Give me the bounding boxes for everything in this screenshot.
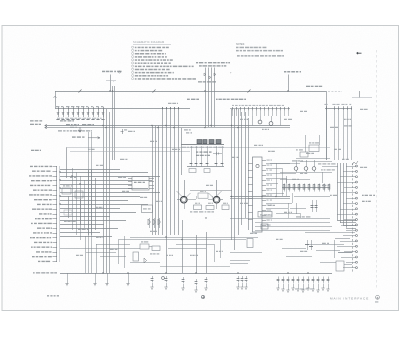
ref label row xyxy=(57,118,102,119)
power-on label xyxy=(284,71,301,73)
wire lamp drop xyxy=(106,75,116,92)
data bus pair xyxy=(45,124,290,129)
resistor network RA1 xyxy=(62,170,96,235)
trig lamp label xyxy=(102,71,122,73)
bus row lower xyxy=(118,238,258,240)
comparator box xyxy=(258,212,272,218)
output jack J1 xyxy=(308,239,352,272)
sheet title MAIN INTERFACE xyxy=(330,295,379,302)
driver stage frame xyxy=(185,180,233,198)
control bus verticals xyxy=(232,109,249,250)
edge connector CN3 xyxy=(337,161,375,272)
op-amp IC3 xyxy=(128,177,154,191)
ground sym labels xyxy=(47,295,59,296)
diodes D11-D13 xyxy=(148,218,160,228)
transistor Q2 (TO-can) xyxy=(213,196,223,209)
microprocessor IC5 xyxy=(248,157,272,232)
tantalum note xyxy=(295,288,313,289)
connector CN1 signal labels xyxy=(29,166,60,262)
parts list text block xyxy=(132,40,196,80)
notes text block xyxy=(236,43,284,57)
remote control label xyxy=(72,136,100,139)
bus trunk left xyxy=(104,109,110,273)
right bus bend xyxy=(337,163,356,229)
decoupling caps & grounds xyxy=(65,273,329,292)
bus trunk left2 xyxy=(113,86,115,160)
small logic box xyxy=(142,205,153,213)
inverter gate block xyxy=(296,135,330,159)
enclosure top edge xyxy=(66,148,330,179)
keyboard diode row D1-D10 xyxy=(55,106,190,132)
svg-text:MAIN INTERFACE: MAIN INTERFACE xyxy=(330,297,369,301)
line transformer T1 xyxy=(196,62,230,127)
output pin row right xyxy=(324,104,352,160)
audio output stage xyxy=(230,160,336,218)
lower interconnect wires xyxy=(60,132,352,273)
label LINE TRANSF xyxy=(216,99,246,100)
interconnect web xyxy=(266,162,338,219)
address bus trunk xyxy=(153,107,207,273)
label 4-BIT xyxy=(187,99,199,100)
regulator label xyxy=(196,151,222,156)
hbus y218-232 xyxy=(230,219,355,233)
emitter resistor boxes xyxy=(177,191,230,210)
fold mark dashed line xyxy=(376,50,378,290)
left edge label 2 xyxy=(31,150,41,151)
revision arrow marker xyxy=(357,52,362,54)
filter caps C20-C22 xyxy=(230,239,313,264)
relay contact row K1 xyxy=(181,128,224,175)
wire power drop xyxy=(288,75,290,92)
label top right xyxy=(306,86,322,87)
circled plus xyxy=(201,295,204,298)
transistor Q1 (TO-can) xyxy=(177,196,187,209)
svg-text:NOTES:: NOTES: xyxy=(236,43,245,46)
cap mark 45 xyxy=(121,129,128,134)
plus mark xyxy=(230,72,232,75)
left bus labels xyxy=(30,120,42,125)
reset circuit xyxy=(120,241,160,263)
bias resistor row xyxy=(187,146,224,173)
wire junction dots xyxy=(59,90,308,273)
switch pin row center xyxy=(230,105,290,126)
timer box xyxy=(261,224,268,229)
power bus +B xyxy=(54,90,373,161)
component ref labels xyxy=(70,103,368,256)
wire fan to logic xyxy=(60,168,160,240)
ground bus xyxy=(33,272,332,273)
